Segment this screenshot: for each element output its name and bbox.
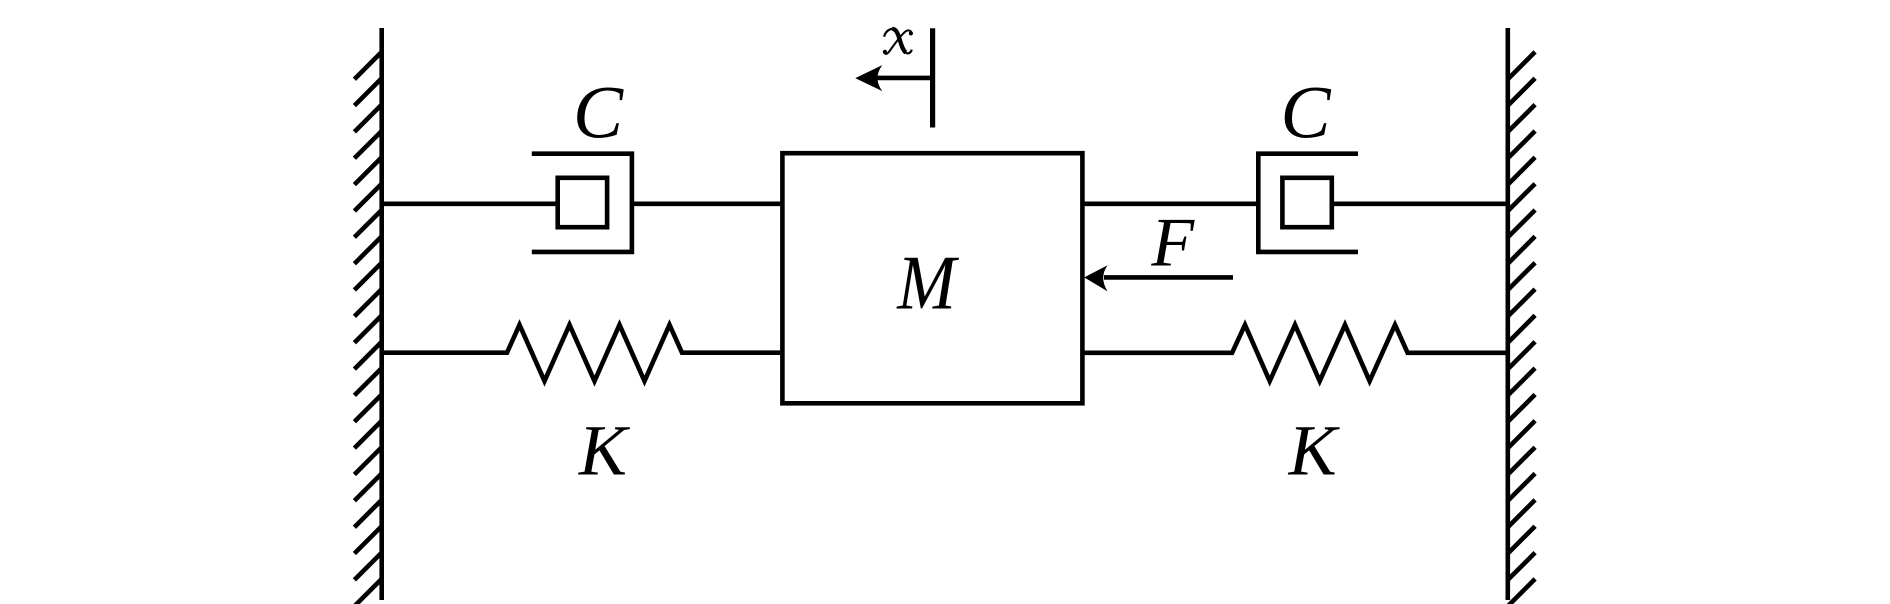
left wall hatching xyxy=(354,52,381,604)
svg-text:C: C xyxy=(1280,72,1331,155)
left wall line xyxy=(379,28,384,600)
left damper piston square xyxy=(558,178,607,227)
left damper rod from wall to piston xyxy=(382,202,557,207)
right damper piston square xyxy=(1282,178,1331,227)
svg-text:C: C xyxy=(573,72,624,155)
right damper rod from piston to wall xyxy=(1333,202,1508,207)
right wall hatching xyxy=(1508,52,1535,604)
right wall line xyxy=(1506,28,1511,600)
left damper cup (opens left) xyxy=(532,154,632,252)
svg-text:F: F xyxy=(1150,204,1195,281)
x arrowhead xyxy=(855,65,882,91)
left damper rod from cup to mass xyxy=(632,202,782,207)
x arrow shaft xyxy=(874,76,933,81)
left spring K zigzag xyxy=(382,325,781,381)
svg-text:M: M xyxy=(896,240,959,326)
right damper cup (opens right) xyxy=(1258,154,1358,252)
F arrow shaft xyxy=(1104,275,1233,280)
F arrowhead xyxy=(1084,265,1107,291)
svg-text:K: K xyxy=(1288,411,1341,491)
x marker vertical line xyxy=(930,28,935,127)
right damper rod from mass to cup xyxy=(1082,202,1259,207)
right spring K zigzag xyxy=(1085,325,1506,381)
svg-text:K: K xyxy=(578,411,631,491)
label x xyxy=(883,29,913,54)
mass M rectangle xyxy=(782,153,1082,403)
